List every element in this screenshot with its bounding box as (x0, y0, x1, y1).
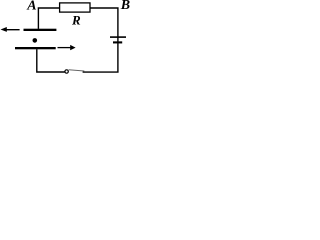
svg-text:A: A (26, 0, 36, 14)
svg-text:R: R (71, 13, 81, 28)
svg-text:B: B (120, 0, 130, 13)
